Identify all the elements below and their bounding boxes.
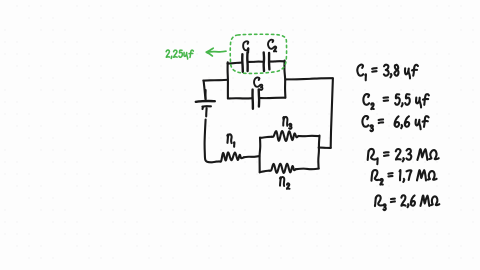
wire right rail to resistor block: [319, 147, 331, 149]
resistor R2 zigzag: [269, 164, 296, 173]
label R2 on schematic: [280, 177, 290, 189]
green dashed box around C1 C2: [230, 34, 286, 73]
wire resistor block right rail: [318, 136, 319, 169]
wire top branch to R3: [260, 137, 272, 138]
capacitor C2 plates: [264, 52, 270, 71]
equation R3 = 2.6 MOhm: [375, 195, 439, 210]
label C3 on schematic: [254, 77, 262, 89]
green label 2.25uF equivalent capacitance: [166, 50, 193, 59]
label R3 on schematic: [283, 117, 291, 129]
wire R1 to resistor block: [244, 156, 260, 157]
label C2 on schematic: [268, 40, 276, 52]
resistor R3 zigzag: [272, 131, 299, 141]
equation C2 = 5.5 uF: [363, 94, 429, 109]
equation C1 = 3.8 uF: [357, 65, 418, 81]
wire bottom branch to R2: [260, 171, 270, 173]
wire between C1 and C2: [248, 61, 263, 64]
wire capacitor block to right rail: [286, 78, 333, 79]
wire bottom branch segment left: [228, 97, 252, 99]
wire resistor block left rail: [259, 138, 262, 173]
wire top branch segment left: [227, 63, 241, 64]
wire right rail down: [331, 78, 333, 148]
wire top branch segment right: [270, 60, 285, 63]
equation R1 = 2.3 MOhm: [368, 149, 439, 164]
resistor R1 zigzag: [220, 152, 244, 161]
wire R3 to right rail of block: [298, 135, 319, 138]
label C1 on schematic: [243, 41, 248, 52]
green arrow from box to value: [206, 48, 226, 56]
wire battery negative down to bottom-left corner: [205, 108, 220, 162]
capacitor C1 plates: [242, 52, 247, 71]
wire battery positive to capacitor block: [203, 80, 227, 100]
capacitor C3 plates: [253, 90, 260, 109]
wire R2 to right rail of block: [296, 168, 319, 171]
equation C3 = 6.6 uF: [362, 116, 428, 131]
wire bottom branch segment right: [259, 97, 285, 100]
equation R2 = 1.7 MOhm: [371, 170, 436, 185]
wire capacitor block left rail: [227, 62, 229, 98]
wire capacitor block right rail: [283, 61, 286, 98]
battery B1 short plate (-): [202, 106, 211, 109]
battery B1 long plate (+): [196, 100, 215, 103]
label R1 on schematic: [227, 134, 234, 146]
